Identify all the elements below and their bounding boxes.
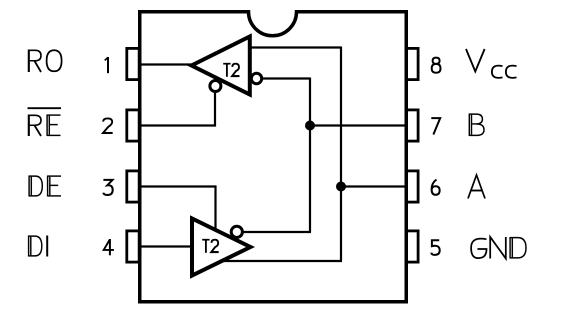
receiver label T2 <box>223 63 239 77</box>
pin number 2 <box>103 118 113 133</box>
wire pin1 RO to receiver T2 output <box>140 63 193 65</box>
label B (pin 7) <box>469 114 484 137</box>
pin 5 box <box>406 231 418 262</box>
wire net A to pin 6 <box>341 185 407 187</box>
label RE with overline (pin 2) <box>28 108 62 136</box>
label Vcc (pin 8) <box>466 49 517 78</box>
wire net B bottom to driver bubble <box>244 231 312 233</box>
pin 8 box <box>406 48 418 79</box>
label DE (pin 3) <box>29 176 61 197</box>
junction node A at pin6 line <box>336 182 346 192</box>
driver inverting output bubble (B) <box>231 226 242 237</box>
pin number 8 <box>432 58 441 73</box>
pin 7 box <box>406 110 418 141</box>
wire net A: receiver input to vertical <box>250 46 342 48</box>
pin number 7 <box>431 118 440 134</box>
wire net A vertical <box>340 47 342 262</box>
junction node B at pin7 line <box>305 121 315 131</box>
pin 3 box <box>127 171 139 202</box>
pin 6 box <box>406 171 418 202</box>
receiver inverting input bubble <box>251 73 261 83</box>
label A (pin 6) <box>468 175 485 199</box>
wire net B vertical <box>309 78 311 233</box>
wire net B to pin 7 <box>310 124 407 126</box>
label DI (pin 4) <box>29 236 48 257</box>
label RO (pin 1) <box>29 50 62 73</box>
pin number 5 <box>431 240 439 255</box>
receiver buffer T2 (points left) <box>192 37 250 95</box>
pin 2 box <box>127 110 139 141</box>
pin number 1 <box>105 57 108 73</box>
pin number 4 <box>104 239 114 255</box>
driver buffer T2 (points right) <box>192 219 251 276</box>
driver label T2 <box>202 239 218 253</box>
IC body U1 (8-pin DIP outline) <box>140 12 407 302</box>
wire pin4 DI to driver T2 input <box>140 245 192 247</box>
wire net A bottom to driver output <box>221 260 342 262</box>
pin number 3 <box>103 180 112 195</box>
pin number 6 <box>432 180 440 195</box>
pin 4 box <box>127 231 139 262</box>
wire net B: receiver inverting input <box>263 77 311 79</box>
pin 1 box <box>127 48 139 79</box>
wire pin3 DE to driver enable <box>140 187 216 230</box>
label GND (pin 5) <box>471 237 526 259</box>
wire pin2 RE to receiver enable bubble <box>140 93 215 126</box>
receiver enable bubble (RE) <box>210 81 221 92</box>
